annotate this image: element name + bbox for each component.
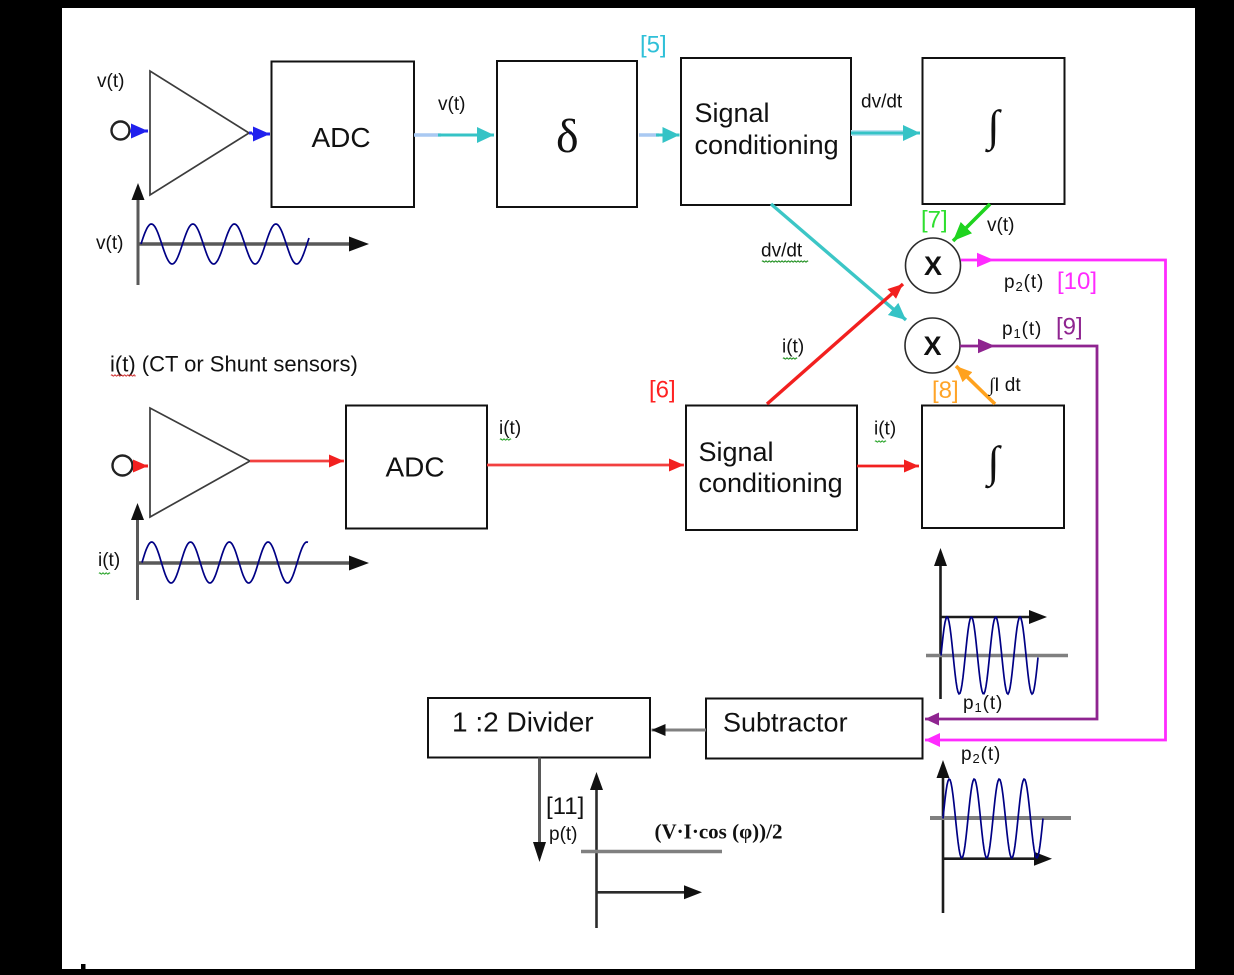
svg-text:p2(t): p2(t): [1004, 272, 1044, 294]
graph v(t) waveform axes: [137, 196, 140, 285]
svg-text:v(t): v(t): [96, 233, 123, 254]
wire signal conditioning to integrator: [851, 130, 912, 136]
wire cyan dv/dt diagonal to multiplier 2: [771, 204, 906, 320]
ADC block U2: [346, 406, 487, 529]
input terminal circle (current): [113, 456, 133, 476]
signal conditioning block (current): [686, 406, 857, 531]
divider block: [428, 698, 650, 758]
integrator block (current): [922, 406, 1064, 529]
svg-text:X: X: [924, 251, 942, 281]
integrator block (voltage): [923, 58, 1065, 204]
svg-text:v(t): v(t): [987, 215, 1014, 236]
svg-text:Signal: Signal: [699, 437, 774, 467]
svg-text:conditioning: conditioning: [695, 130, 839, 160]
svg-text:p(t): p(t): [549, 824, 578, 845]
svg-text:[7]: [7]: [921, 207, 948, 234]
delta block: [497, 61, 637, 207]
svg-text:[5]: [5]: [640, 32, 667, 59]
svg-text:Subtractor: Subtractor: [723, 708, 848, 738]
svg-text:i(t): i(t): [782, 337, 804, 358]
graph p1(t) axes: [939, 562, 942, 699]
svg-text:[10]: [10]: [1057, 268, 1097, 295]
graph v(t) sine wave: [141, 224, 309, 264]
wire orange integral I dt to multiplier 2: [956, 366, 995, 404]
svg-text:i(t): i(t): [98, 550, 120, 571]
wire amplifier to ADC (current): [250, 460, 344, 463]
wire blue arrow amplifier to ADC: [249, 132, 252, 135]
svg-text:ADC: ADC: [386, 452, 445, 483]
wire magenta p2(t) from multiplier 1 to subtractor: [925, 260, 1166, 740]
wire delta to signal conditioning: [639, 133, 659, 136]
op-amp current amplifier triangle: [150, 408, 250, 517]
wire signal conditioning to integrator (current): [857, 465, 919, 468]
svg-text:δ: δ: [556, 110, 579, 163]
svg-text:dv/dt: dv/dt: [861, 92, 903, 113]
svg-text:i(t): i(t): [874, 419, 896, 440]
svg-text:p1(t): p1(t): [963, 693, 1003, 715]
svg-text:i(t) (CT or Shunt sensors): i(t) (CT or Shunt sensors): [110, 352, 358, 377]
multiplier X1 circle: [906, 238, 961, 293]
ADC block U1: [272, 62, 415, 208]
svg-text:v(t): v(t): [97, 71, 124, 92]
svg-text:p1(t): p1(t): [1002, 319, 1042, 341]
svg-text:∫I dt: ∫I dt: [988, 375, 1021, 397]
wire ADC to delta block: [414, 133, 441, 136]
svg-text:i(t): i(t): [499, 418, 521, 439]
input terminal circle (voltage): [112, 122, 130, 140]
svg-text:ADC: ADC: [312, 122, 371, 153]
graph p2(t) sine wave: [943, 779, 1043, 858]
wire purple p1(t) from multiplier 2 to subtractor: [925, 346, 1097, 719]
wire red i(t) diagonal to multiplier 1: [767, 284, 903, 404]
graph p2(t) axes: [942, 774, 945, 913]
stray mark bottom left: [81, 964, 86, 969]
multiplier X2 circle: [905, 318, 960, 373]
subtractor block: [706, 699, 923, 759]
wire divider output p(t) down: [538, 758, 541, 846]
wire ADC to signal conditioning (current): [487, 464, 684, 467]
op-amp voltage amplifier triangle: [150, 71, 249, 195]
svg-text:[9]: [9]: [1056, 314, 1083, 341]
svg-text:v(t): v(t): [438, 94, 465, 115]
svg-text:[8]: [8]: [932, 377, 959, 404]
svg-text:1 :2 Divider: 1 :2 Divider: [452, 707, 594, 738]
graph i(t) sine wave: [142, 542, 308, 583]
svg-text:Signal: Signal: [695, 98, 770, 128]
svg-text:p2(t): p2(t): [961, 744, 1001, 766]
wire red arrow into amplifier: [133, 465, 148, 468]
svg-text:conditioning: conditioning: [699, 468, 843, 498]
signal conditioning block (voltage): [681, 58, 851, 205]
wire subtractor to divider: [652, 729, 707, 732]
graph p(t) axes: [595, 786, 598, 928]
wire green v(t) from integrator to multiplier 1: [953, 204, 990, 241]
wire blue arrow into amplifier: [130, 130, 148, 133]
svg-text:[6]: [6]: [649, 377, 676, 404]
svg-text:dv/dt: dv/dt: [761, 241, 803, 262]
graph p1(t) sine wave: [941, 617, 1038, 694]
svg-text:[11]: [11]: [546, 793, 584, 820]
svg-text:(V·I·cos (φ))/2: (V·I·cos (φ))/2: [655, 820, 783, 844]
graph i(t) waveform axes: [136, 517, 139, 600]
svg-text:X: X: [924, 331, 942, 361]
